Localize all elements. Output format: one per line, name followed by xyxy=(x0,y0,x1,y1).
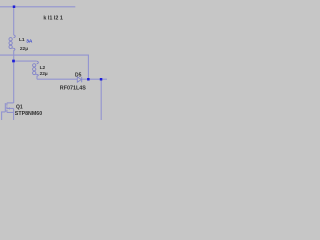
wire diode cathode to right edge xyxy=(82,78,107,80)
wire left vertical lower (L1 to Q1 drain) xyxy=(13,50,15,103)
svg-text:RF071L4S: RF071L4S xyxy=(60,85,86,91)
svg-text:22µ: 22µ xyxy=(20,46,28,52)
wire L2 bottom lead to diode anode xyxy=(37,76,77,80)
wire Q1 gate lead xyxy=(2,112,6,120)
svg-text:Q1: Q1 xyxy=(16,104,23,110)
node junction dot at (101,79) xyxy=(100,78,103,81)
wire top rail xyxy=(0,6,75,8)
Q1 body-diode arrow xyxy=(7,107,10,109)
wire Q1 source lead xyxy=(13,108,15,120)
svg-text:STP8NM60: STP8NM60 xyxy=(15,111,42,117)
wire B (node to L2 top) xyxy=(14,60,37,62)
svg-text:L2: L2 xyxy=(40,65,46,71)
wire right vertical to bottom xyxy=(100,79,102,120)
background xyxy=(0,0,107,120)
transistor Q1 (NMOS) xyxy=(5,103,13,113)
svg-text:D5: D5 xyxy=(75,72,82,78)
inductor L1 xyxy=(9,35,15,50)
node junction dot at (88,79) xyxy=(87,78,90,81)
svg-text:22µ: 22µ xyxy=(40,71,48,77)
svg-text:3A: 3A xyxy=(26,39,33,45)
wire mid rail A with corner down at x=88 xyxy=(0,55,88,79)
svg-text:L1: L1 xyxy=(19,37,25,43)
diode D5 xyxy=(77,77,81,83)
node junction dot top xyxy=(13,5,16,8)
inductor L2 xyxy=(33,61,39,76)
svg-text:k l1 l2 1: k l1 l2 1 xyxy=(43,15,62,21)
node junction dot at wire B xyxy=(12,60,15,63)
wire left vertical upper (node to L1) xyxy=(13,7,15,35)
